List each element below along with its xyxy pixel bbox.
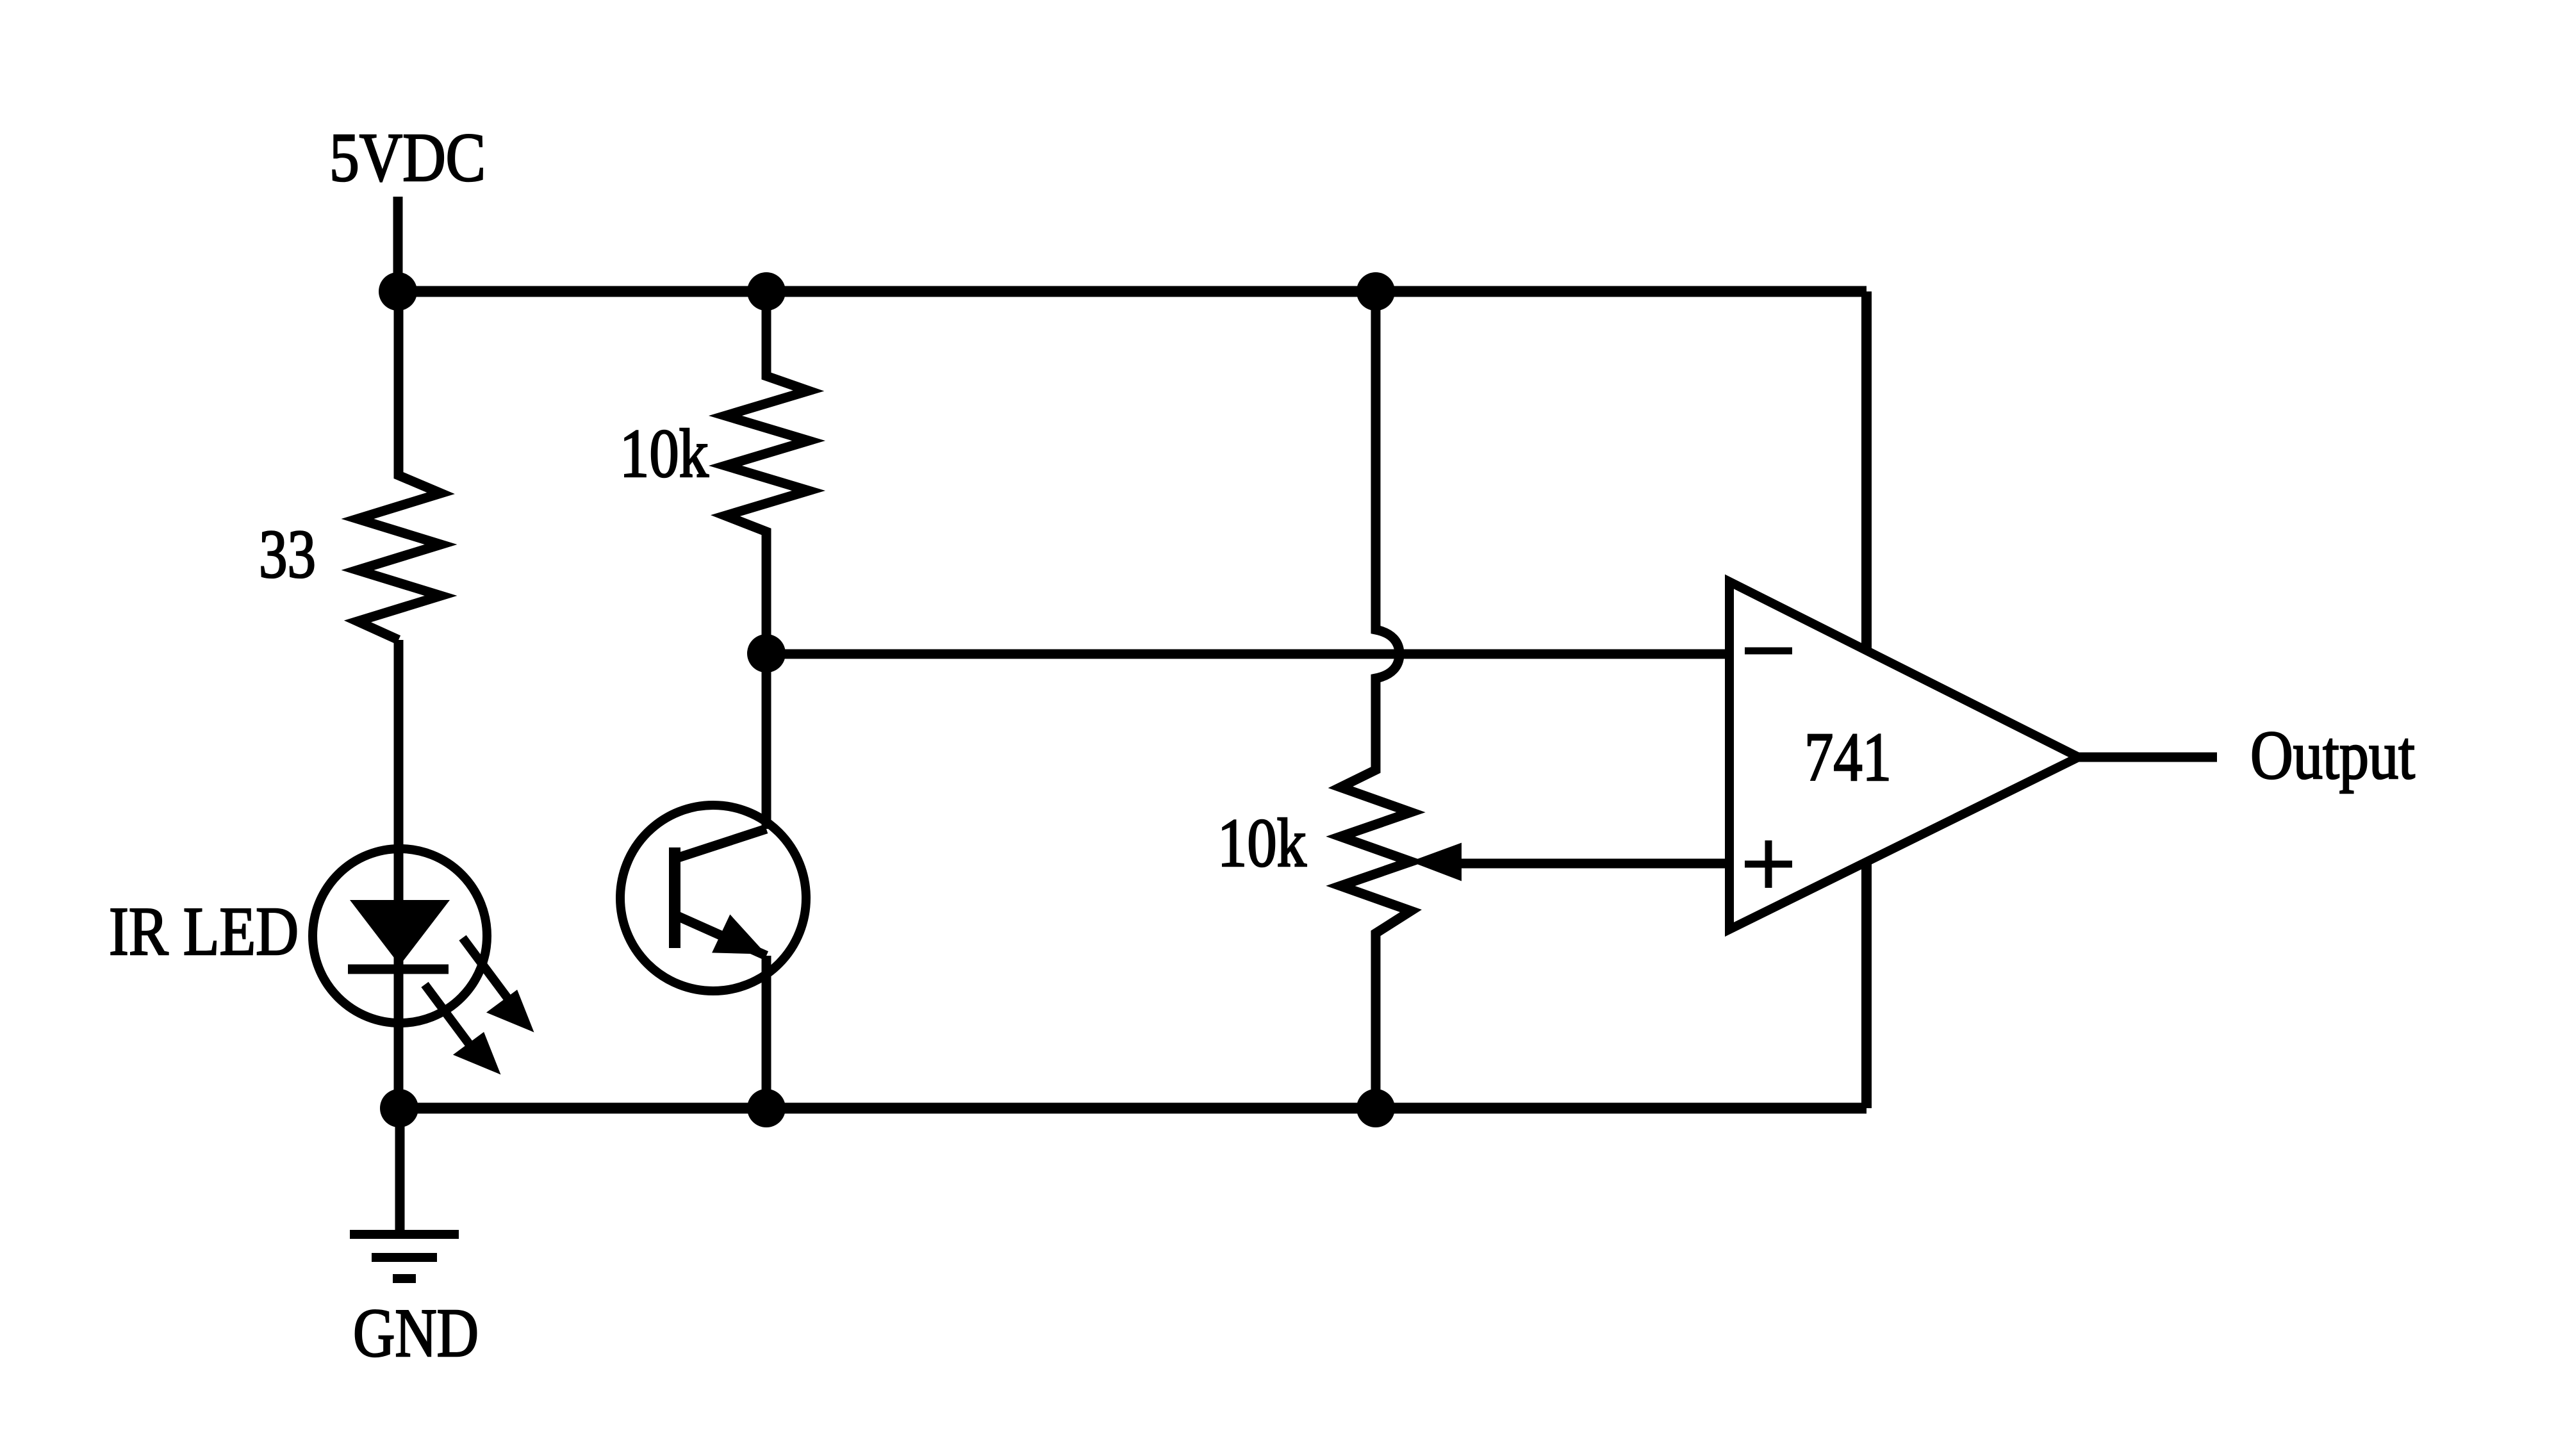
resistor R1 33 with leads bbox=[358, 291, 441, 640]
ground symbol bbox=[350, 1234, 459, 1279]
svg-text:5VDC: 5VDC bbox=[329, 120, 486, 196]
wire top power rail bbox=[398, 286, 1867, 297]
resistor R2 10k with leads bbox=[725, 291, 809, 653]
node junction dot top rail pot bbox=[1356, 272, 1395, 311]
potentiometer R3 wiper arrow bbox=[1412, 844, 1729, 880]
svg-text:33: 33 bbox=[259, 516, 316, 593]
op-amp U1 741 triangle bbox=[1729, 582, 2079, 929]
diode D1 anode triangle bbox=[350, 900, 450, 965]
node junction dot bottom rail branch2 bbox=[747, 1089, 786, 1127]
node junction dot inverting input bbox=[747, 634, 786, 673]
svg-text:GND: GND bbox=[353, 1295, 479, 1371]
diode D1 IR LED circle bbox=[313, 849, 487, 1023]
diode D1 cathode bar bbox=[348, 965, 449, 974]
wire inverting input bbox=[766, 650, 1729, 659]
diode D1 emission arrow lower bbox=[425, 985, 498, 1072]
svg-text:10k: 10k bbox=[620, 416, 709, 492]
wire emitter segment bbox=[762, 956, 771, 1108]
svg-text:10k: 10k bbox=[1217, 805, 1306, 881]
transistor Q1 phototransistor circle bbox=[620, 805, 806, 991]
transistor Q1 emitter diagonal with arrow bbox=[676, 915, 766, 956]
svg-text:Output: Output bbox=[2250, 717, 2415, 794]
node junction dot top rail branch2 bbox=[747, 272, 786, 311]
transistor Q1 base bar bbox=[669, 847, 680, 948]
wire output bbox=[2079, 753, 2217, 762]
diode D1 emission arrow upper bbox=[463, 938, 531, 1029]
transistor Q1 collector diagonal bbox=[676, 829, 766, 858]
op-amp U1 non-inverting input symbol bbox=[1745, 840, 1792, 888]
potentiometer R3 10k with hop and leads bbox=[1340, 291, 1411, 1108]
wire 5VDC stem bbox=[393, 197, 403, 291]
wire collector segment bbox=[762, 653, 771, 829]
svg-text:741: 741 bbox=[1804, 719, 1891, 796]
wire bottom ground rail bbox=[399, 1103, 1867, 1114]
wire branch1 lower segment through LED bbox=[394, 640, 404, 1109]
node junction dot bottom rail pot bbox=[1356, 1089, 1395, 1127]
wire right supply vertical bbox=[1861, 291, 1872, 1108]
op-amp U1 inverting input symbol bbox=[1745, 648, 1792, 655]
node junction dot bottom rail branch1 bbox=[380, 1089, 418, 1127]
svg-text:IR LED: IR LED bbox=[109, 894, 299, 970]
wire GND stem bbox=[395, 1109, 405, 1233]
node junction dot top rail branch1 bbox=[379, 272, 417, 311]
